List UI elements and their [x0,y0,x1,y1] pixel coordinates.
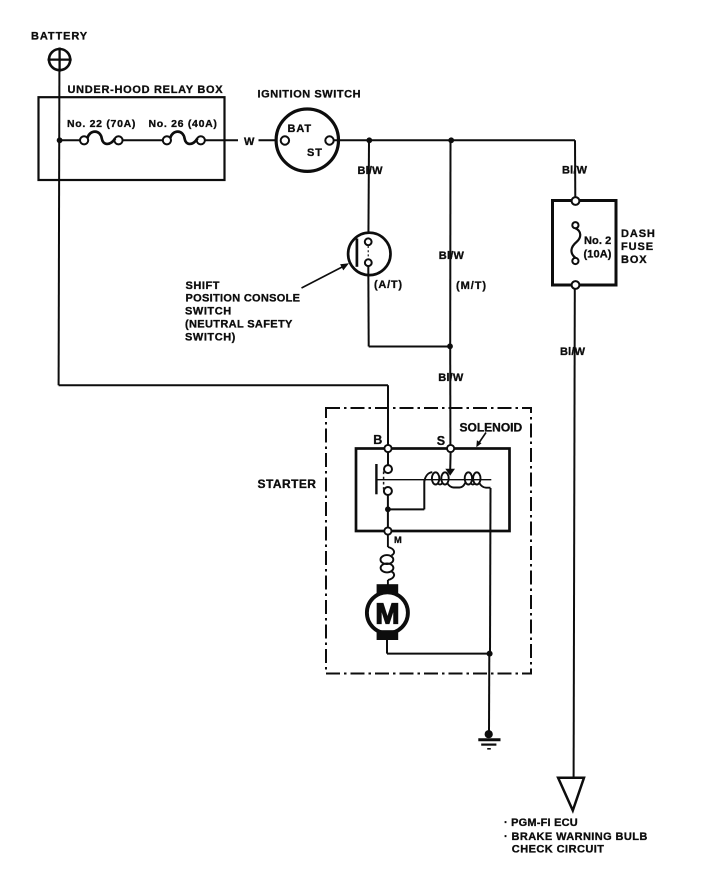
svg-text:SWITCH: SWITCH [185,306,232,318]
svg-text:Bl/W: Bl/W [438,372,464,384]
svg-text:BATTERY: BATTERY [31,31,88,43]
svg-text:FUSE: FUSE [621,241,654,253]
svg-text:SWITCH): SWITCH) [185,332,236,344]
svg-text:· PGM-FI ECU: · PGM-FI ECU [504,817,578,829]
svg-text:· BRAKE WARNING BULB: · BRAKE WARNING BULB [504,831,648,843]
svg-text:SOLENOID: SOLENOID [460,420,523,434]
svg-text:S: S [437,434,446,448]
svg-text:BAT: BAT [288,123,313,135]
svg-text:Bl/W: Bl/W [560,346,586,358]
svg-text:B: B [373,433,383,447]
svg-text:No. 26 (40A): No. 26 (40A) [149,118,218,130]
svg-text:Bl/W: Bl/W [562,164,588,176]
svg-text:STARTER: STARTER [258,477,317,491]
svg-text:CHECK CIRCUIT: CHECK CIRCUIT [512,844,605,856]
svg-text:BOX: BOX [621,254,648,266]
svg-text:Bl/W: Bl/W [439,250,465,262]
svg-text:IGNITION SWITCH: IGNITION SWITCH [258,89,362,101]
svg-text:(10A): (10A) [584,248,612,260]
svg-text:ST: ST [307,147,323,159]
svg-text:M: M [394,535,403,545]
svg-text:POSITION CONSOLE: POSITION CONSOLE [186,293,301,305]
svg-text:DASH: DASH [621,228,656,240]
svg-text:M: M [375,598,399,630]
svg-text:SHIFT: SHIFT [186,280,221,292]
svg-text:(NEUTRAL SAFETY: (NEUTRAL SAFETY [185,319,293,331]
svg-text:(A/T): (A/T) [374,279,403,291]
svg-text:Bl/W: Bl/W [358,165,384,177]
svg-text:(M/T): (M/T) [456,280,487,292]
svg-text:UNDER-HOOD RELAY BOX: UNDER-HOOD RELAY BOX [68,84,224,96]
svg-text:W: W [244,136,255,148]
svg-text:No. 2: No. 2 [584,235,611,247]
svg-text:No. 22 (70A): No. 22 (70A) [67,118,136,130]
